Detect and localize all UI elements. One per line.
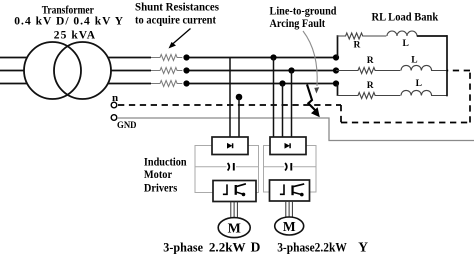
resistor shunt Rb: [151, 68, 182, 74]
svg-text:Transformer: Transformer: [42, 4, 94, 16]
label 3-phase 2.2kW D: [163, 240, 260, 255]
node dot driver2 phase a: [270, 54, 276, 60]
svg-text:L: L: [416, 79, 422, 89]
svg-text:D: D: [251, 240, 261, 255]
svg-text:2.2kW: 2.2kW: [209, 241, 246, 255]
inverter box driver2: [270, 180, 310, 201]
arcing fault bolt: [307, 85, 320, 118]
svg-text:RL Load Bank: RL Load Bank: [372, 12, 439, 24]
svg-text:3-phase2.2kW: 3-phase2.2kW: [277, 241, 347, 255]
node dot bus a to load: [333, 54, 339, 60]
resistor R load branch1: [337, 33, 386, 39]
wire load bank right bus: [446, 35, 448, 96]
node dot c: [183, 80, 189, 86]
wire driver2 phase c wire: [282, 84, 284, 138]
transformer T1: [24, 42, 111, 99]
svg-text:M: M: [283, 219, 296, 234]
svg-text:GND: GND: [117, 120, 137, 130]
wires driver1 to motor: [231, 202, 238, 219]
svg-text:L: L: [411, 55, 417, 65]
diode symbol driver1: [227, 143, 233, 149]
node dot bus c to load: [333, 80, 339, 86]
svg-text:Y: Y: [358, 240, 368, 255]
motor M1: [218, 218, 250, 238]
svg-text:M: M: [228, 222, 241, 237]
wire driver2 phase b wire: [291, 71, 293, 138]
label 3-phase2.2kW Y: [277, 240, 368, 255]
inverter box driver1: [213, 181, 256, 202]
inductor L branch3: [401, 90, 447, 95]
leader curve to fault: [303, 31, 319, 94]
svg-text:to acquire current: to acquire current: [135, 15, 216, 27]
node dot bus b to load: [333, 67, 339, 73]
svg-text:Arcing Fault: Arcing Fault: [270, 18, 326, 30]
inductor L branch2: [401, 65, 447, 70]
node n terminal: [111, 102, 117, 108]
resistor R load branch3: [337, 93, 401, 99]
dc link rails driver1: [195, 146, 259, 193]
wire load bank top right corner: [417, 35, 448, 37]
node dot a: [183, 54, 189, 60]
igbt symbol driver2: [280, 184, 304, 197]
resistor R load branch2: [336, 68, 400, 74]
wire bus phase a: [0, 57, 338, 59]
node dot b: [183, 67, 189, 73]
wires driver2 to motor: [286, 201, 293, 217]
motor M2: [275, 217, 304, 235]
svg-text:R: R: [367, 56, 374, 66]
wire ground line: [117, 118, 474, 141]
rectifier box driver1: [212, 137, 248, 155]
resistor shunt Ra: [151, 55, 182, 61]
node dot driver1 neutral tap: [236, 94, 243, 101]
node dot driver2 phase b: [288, 67, 294, 73]
dc link rails driver2: [264, 146, 317, 193]
svg-text:3-phase: 3-phase: [163, 241, 203, 255]
wire driver1 neutral wire: [238, 97, 240, 137]
svg-text:Drivers: Drivers: [144, 180, 178, 194]
svg-text:Shunt Resistances: Shunt Resistances: [135, 1, 220, 13]
svg-text:Line-to-ground: Line-to-ground: [270, 6, 338, 18]
capacitor dc link driver2: [285, 163, 291, 171]
svg-text:R: R: [354, 41, 361, 51]
igbt symbol driver1: [223, 184, 246, 196]
svg-text:0.4 kV D/ 0.4 kV Y: 0.4 kV D/ 0.4 kV Y: [14, 16, 123, 28]
diode symbol driver2: [285, 143, 291, 149]
wire driver1 phase wire: [229, 58, 231, 138]
capacitor dc link driver1: [228, 163, 234, 171]
arrow to shunt resistors: [169, 29, 191, 49]
resistor shunt Rc: [151, 81, 182, 87]
wire bus phase b: [0, 70, 337, 72]
node GND terminal: [111, 115, 117, 121]
wire load branch1 riser: [337, 35, 339, 57]
svg-text:R: R: [367, 81, 374, 91]
wire driver2 phase a wire: [273, 58, 275, 138]
rectifier box driver2: [270, 137, 306, 155]
inductor L branch1: [387, 31, 447, 36]
svg-text:25 kVA: 25 kVA: [54, 30, 96, 42]
svg-text:n: n: [112, 92, 118, 104]
wire bus phase c: [0, 83, 338, 85]
wire load branch3 riser: [337, 84, 339, 96]
svg-text:Motor: Motor: [144, 167, 173, 181]
node dot driver2 phase c: [279, 80, 285, 86]
wire neutral dashed: [118, 71, 470, 123]
svg-text:L: L: [403, 39, 409, 49]
